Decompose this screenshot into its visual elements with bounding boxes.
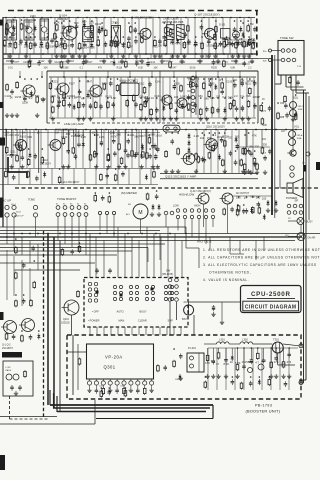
capacitor	[220, 89, 224, 95]
wire	[187, 77, 191, 79]
capacitor	[230, 207, 234, 213]
ground	[211, 374, 215, 378]
junction	[203, 17, 205, 19]
drop wire	[209, 237, 211, 250]
resistor	[189, 80, 192, 88]
ground	[35, 113, 39, 117]
top supply rail	[3, 17, 255, 19]
resistor	[248, 38, 251, 46]
drop wire	[138, 241, 140, 278]
junction	[224, 97, 226, 99]
wire stub	[211, 78, 213, 118]
stub wire	[236, 348, 238, 363]
electrolytic capacitor	[236, 143, 239, 149]
svg-text:TONE: TONE	[28, 199, 35, 202]
capacitor	[274, 356, 278, 362]
svg-text:1K: 1K	[230, 360, 233, 364]
drop wire	[64, 216, 66, 244]
resistor	[21, 334, 24, 342]
capacitor	[146, 97, 150, 103]
capacitor	[35, 176, 39, 182]
resistor	[16, 81, 19, 89]
junction	[87, 80, 89, 82]
drop wire	[177, 219, 179, 231]
ground	[63, 54, 67, 58]
ground	[144, 117, 148, 121]
ground	[150, 212, 154, 216]
capacitor	[219, 41, 223, 47]
svg-text:10/16: 10/16	[15, 95, 22, 99]
switch block at x=147	[145, 285, 154, 300]
junction	[133, 80, 135, 82]
junction	[265, 129, 267, 131]
switch contact	[77, 206, 81, 210]
junction	[115, 22, 117, 24]
svg-text:10/16: 10/16	[155, 133, 162, 137]
svg-text:0.01: 0.01	[8, 67, 13, 70]
svg-text:LOW: LOW	[173, 205, 179, 208]
junction	[235, 129, 237, 131]
bus wire 1	[0, 226, 186, 228]
junction	[258, 196, 260, 198]
junction	[123, 36, 125, 38]
resistor	[78, 245, 81, 253]
capacitor	[60, 41, 64, 47]
resistor	[206, 354, 209, 362]
junction	[246, 196, 248, 198]
resistor	[64, 42, 67, 50]
diode	[141, 143, 144, 149]
transistor Q113a	[160, 95, 173, 105]
junction	[251, 347, 253, 349]
stub wire	[117, 54, 119, 59]
connector box PJ-301	[187, 353, 204, 372]
stub wire	[128, 54, 130, 59]
capacitor	[207, 39, 211, 45]
junction	[221, 17, 223, 19]
svg-text:102: 102	[186, 42, 191, 46]
resistor	[258, 206, 261, 214]
capacitor	[57, 103, 61, 109]
capacitor	[155, 107, 159, 113]
fuse F1 2A	[184, 305, 194, 315]
bottom conduit wire 1	[50, 404, 213, 406]
power switch contact	[287, 204, 291, 208]
ground	[164, 169, 168, 173]
resistor	[144, 100, 147, 108]
drop wire	[203, 204, 205, 227]
wire stub	[252, 130, 254, 173]
wire	[187, 90, 191, 92]
junction	[131, 17, 133, 19]
diode	[100, 26, 103, 32]
svg-text:102: 102	[96, 43, 101, 47]
wire stub	[92, 78, 94, 118]
svg-text:330: 330	[263, 143, 268, 147]
junction	[175, 129, 177, 131]
bottom conduit wire 3	[57, 411, 206, 413]
svg-text:ON AIR: ON AIR	[308, 236, 316, 239]
capacitor	[224, 357, 228, 363]
junction	[171, 132, 173, 134]
svg-text:100: 100	[39, 45, 44, 49]
bottom wire	[0, 416, 57, 418]
ground	[200, 54, 204, 58]
capacitor	[163, 365, 167, 371]
TONE SW box	[278, 41, 304, 76]
switch contact	[63, 206, 67, 210]
capacitor	[195, 83, 199, 89]
transistor Q115	[181, 153, 195, 165]
switch contact	[70, 213, 74, 217]
wire stub	[78, 78, 80, 118]
resistor	[89, 153, 92, 161]
resistor	[169, 61, 172, 69]
stub wire	[283, 348, 285, 360]
junction	[156, 190, 158, 192]
junction	[285, 129, 287, 131]
junction	[115, 129, 117, 131]
junction	[184, 36, 186, 38]
junction	[69, 53, 71, 55]
IC U101 uPC575C2	[120, 83, 139, 96]
junction	[25, 53, 27, 55]
svg-text:102: 102	[200, 136, 205, 140]
connector pad	[105, 211, 108, 214]
connector pad	[5, 205, 9, 209]
svg-text:R135: R135	[174, 83, 180, 86]
wire stub	[231, 130, 233, 173]
wire stub	[113, 78, 115, 118]
junction	[131, 129, 133, 131]
dashed bottom wire	[10, 418, 49, 420]
capacitor	[60, 36, 64, 42]
capacitor	[220, 137, 224, 143]
junction	[200, 97, 202, 99]
capacitor	[209, 82, 213, 88]
capacitor	[104, 41, 108, 47]
resistor	[243, 163, 246, 171]
resistor	[55, 40, 58, 48]
resistor	[100, 173, 103, 181]
stub wire	[118, 130, 120, 143]
junction	[83, 58, 85, 60]
svg-text:S2: S2	[63, 204, 65, 206]
drop wire	[180, 327, 182, 335]
resistor	[6, 22, 9, 30]
junction	[5, 17, 7, 19]
switch contact	[84, 213, 88, 217]
block label mark	[2, 352, 22, 358]
IC pin pad	[87, 381, 91, 385]
svg-text:C95: C95	[280, 103, 285, 105]
junction	[185, 233, 187, 235]
switch contact	[77, 213, 81, 217]
wire stub	[204, 78, 206, 118]
drop wire	[71, 315, 73, 335]
stub wire	[106, 54, 108, 59]
capacitor	[12, 175, 16, 181]
junction	[185, 17, 187, 19]
tone sw drop 1	[280, 75, 282, 84]
resistor	[252, 42, 255, 50]
svg-text:103: 103	[5, 132, 10, 135]
capacitor	[151, 143, 155, 149]
electrolytic capacitor	[146, 61, 149, 67]
resistor	[58, 176, 61, 184]
drop wire	[198, 248, 200, 268]
resistor	[247, 100, 250, 108]
resistor	[100, 390, 103, 398]
junction	[180, 53, 182, 55]
conduit bend wire	[212, 405, 214, 419]
stub wire	[73, 54, 75, 59]
resistor	[256, 163, 259, 171]
wire stub	[166, 18, 168, 54]
ceramic filter CF103	[177, 25, 185, 40]
svg-text:C302: C302	[99, 386, 104, 388]
stub wire	[217, 71, 219, 77]
stub wire	[151, 71, 153, 77]
capacitor	[162, 35, 166, 41]
svg-text:R112: R112	[39, 60, 45, 63]
capacitor	[11, 32, 15, 38]
electrolytic capacitor C210	[212, 305, 215, 311]
capacitor	[253, 103, 257, 109]
junction	[47, 36, 49, 38]
junction	[204, 134, 206, 136]
ground	[61, 165, 65, 169]
wire stub	[99, 78, 101, 118]
svg-text:1. ALL RESISTORS ARE IN Ω/W UN: 1. ALL RESISTORS ARE IN Ω/W UNLESS OTHER…	[203, 248, 320, 252]
switch block at x=115	[113, 285, 122, 300]
ground	[106, 165, 110, 169]
junction	[69, 20, 71, 22]
capacitor	[99, 104, 103, 110]
svg-text:330: 330	[255, 144, 260, 148]
junction	[113, 58, 115, 60]
wire stub	[73, 169, 75, 185]
switch contact	[190, 215, 193, 218]
diode	[112, 60, 115, 66]
drop wire	[131, 237, 133, 278]
junction	[154, 36, 156, 38]
power switch contact	[293, 211, 297, 215]
stub wire	[40, 54, 42, 59]
thick corner trace	[8, 157, 27, 178]
stub wire	[212, 348, 214, 359]
left edge mark	[0, 20, 3, 26]
resistor	[41, 156, 44, 164]
stub wire	[150, 54, 152, 59]
junction	[165, 132, 167, 134]
svg-text:C105: C105	[23, 61, 30, 64]
wire stub	[243, 348, 245, 390]
left border wire	[2, 17, 4, 227]
svg-text:S5: S5	[84, 204, 86, 206]
resistor	[270, 361, 273, 369]
junction	[158, 17, 160, 19]
resistor	[150, 108, 153, 116]
IC pin pad	[129, 381, 133, 385]
resistor	[294, 113, 297, 121]
wire stub	[61, 130, 63, 168]
drop wire	[96, 327, 98, 335]
resistor	[195, 152, 198, 160]
svg-text:47: 47	[216, 362, 219, 366]
connector pad	[12, 213, 16, 217]
wire	[204, 343, 217, 345]
junction	[208, 80, 210, 82]
connector column wire	[195, 75, 197, 115]
drop wire	[21, 237, 23, 255]
capacitor	[33, 153, 37, 159]
stub wire	[100, 130, 102, 141]
capacitor	[77, 142, 81, 148]
junction	[151, 76, 153, 78]
wire stub	[246, 78, 248, 118]
capacitor	[249, 381, 253, 387]
potentiometer VR1b	[290, 110, 297, 117]
resistor	[261, 147, 264, 155]
electrolytic capacitor	[252, 39, 255, 45]
wire stub	[208, 18, 210, 54]
transistor Q1	[1, 321, 17, 334]
svg-text:10K: 10K	[153, 67, 158, 70]
wire stub	[201, 18, 203, 54]
ground	[10, 113, 14, 117]
intermediate rail	[3, 63, 250, 65]
FET Q104 3SK40M	[61, 26, 78, 40]
junction	[144, 97, 146, 99]
capacitor	[113, 151, 117, 157]
junction	[221, 78, 223, 80]
drop wire	[167, 227, 169, 278]
stub wire	[95, 54, 97, 59]
wire stub	[40, 169, 42, 185]
ground	[176, 169, 180, 173]
junction	[5, 168, 7, 170]
IC pin pad	[115, 381, 119, 385]
ground	[134, 54, 138, 58]
junction	[25, 129, 27, 131]
junction	[105, 129, 107, 131]
stub wire	[225, 348, 227, 357]
resistor	[237, 204, 240, 212]
resistor	[157, 364, 160, 372]
switch contact	[204, 215, 207, 218]
junction	[165, 53, 167, 55]
svg-text:C134: C134	[154, 94, 161, 98]
resistor	[51, 95, 54, 103]
IC pin wire	[89, 385, 91, 388]
junction	[101, 22, 103, 24]
svg-text:0.1: 0.1	[70, 43, 74, 47]
capacitor	[134, 102, 138, 108]
svg-text:15K: 15K	[248, 145, 253, 149]
IC pin pad	[108, 381, 112, 385]
svg-text:2.2: 2.2	[218, 42, 222, 46]
wire stub	[84, 169, 86, 185]
IC pin wire	[116, 379, 118, 381]
junction	[30, 36, 32, 38]
drop wire	[261, 130, 263, 148]
ground	[54, 54, 58, 58]
junction	[42, 53, 44, 55]
stub wire	[7, 54, 9, 59]
bend wire	[186, 247, 199, 249]
stub wire	[51, 54, 53, 59]
switch block at x=131	[129, 285, 138, 300]
diode	[187, 147, 190, 153]
IC pin wire	[130, 385, 132, 388]
ground	[170, 169, 174, 173]
ground	[20, 165, 24, 169]
capacitor	[285, 113, 289, 119]
ground	[149, 117, 153, 121]
junction	[239, 76, 241, 78]
capacitor	[134, 39, 138, 45]
electrolytic capacitor	[134, 27, 137, 33]
junction	[52, 80, 54, 82]
junction	[141, 233, 143, 235]
resistor	[223, 139, 226, 147]
wire	[187, 110, 191, 112]
wire	[187, 103, 191, 105]
ground	[194, 169, 198, 173]
connector pin	[191, 83, 195, 87]
ground	[81, 117, 85, 121]
svg-text:TONE SW: TONE SW	[280, 36, 294, 40]
resistor	[183, 41, 186, 49]
junction	[155, 233, 157, 235]
svg-text:33K: 33K	[33, 43, 38, 47]
wire stub	[68, 130, 70, 168]
potentiometer VR2 VOL	[289, 131, 296, 138]
junction	[111, 53, 113, 55]
resistor	[123, 387, 126, 395]
junction	[125, 58, 127, 60]
junction	[30, 78, 32, 80]
switch contact	[176, 215, 179, 218]
IC pin wire	[95, 385, 97, 388]
resistor	[14, 41, 17, 49]
switch contact	[211, 215, 214, 218]
ground	[9, 165, 13, 169]
junction	[56, 20, 58, 22]
drop wire	[13, 234, 15, 252]
capacitor	[174, 108, 178, 114]
capacitor	[109, 81, 113, 87]
svg-text:100: 100	[235, 135, 240, 139]
drop wire	[29, 241, 31, 264]
junction	[4, 36, 6, 38]
ground	[266, 208, 270, 212]
resistor	[129, 25, 132, 33]
stub wire	[19, 71, 21, 77]
drop wire	[205, 219, 207, 244]
bus wire 5	[0, 240, 295, 242]
drop wire	[191, 219, 193, 237]
svg-text:BUSY: BUSY	[306, 221, 313, 224]
wire stub	[40, 18, 42, 54]
svg-text:D102: D102	[95, 22, 102, 26]
junction	[85, 129, 87, 131]
resistor	[91, 24, 94, 32]
junction	[242, 22, 244, 24]
junction	[11, 129, 13, 131]
junction	[34, 36, 36, 38]
